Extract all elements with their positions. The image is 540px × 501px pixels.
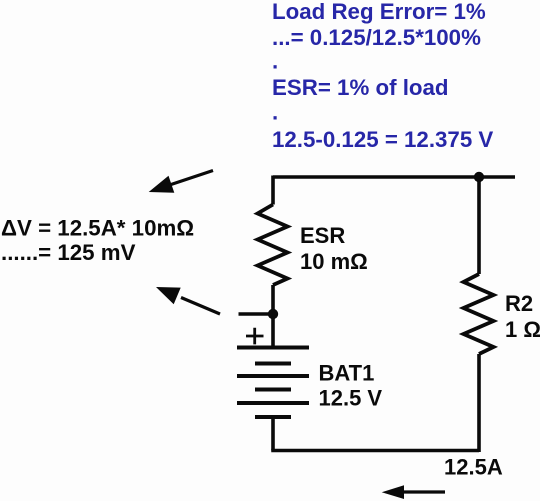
svg-text:12.5 V: 12.5 V — [319, 386, 383, 411]
arrow 1 (points upper-left, from top wire toward dV note) — [149, 171, 213, 193]
arrow 2 (points upper-left, from + node toward dV note) — [156, 287, 220, 314]
svg-text:10 mΩ: 10 mΩ — [300, 249, 368, 274]
svg-text:R2: R2 — [505, 291, 533, 316]
svg-text:.: . — [272, 49, 278, 74]
arrow 3 (bottom, points left, load current direction) — [382, 485, 445, 499]
resistor R2 zigzag — [464, 274, 494, 354]
junction dot ESR/battery + node — [268, 309, 278, 319]
wire + node to battery top plate — [271, 314, 275, 348]
svg-text:1 Ω: 1 Ω — [505, 317, 540, 342]
svg-text:ΔV = 12.5A* 10mΩ: ΔV = 12.5A* 10mΩ — [1, 216, 194, 241]
junction dot top node — [474, 172, 484, 182]
svg-text:.: . — [272, 100, 278, 125]
wire stub left of + node — [239, 312, 274, 316]
wire ESR bottom to + node — [271, 285, 275, 314]
svg-text:......= 125 mV: ......= 125 mV — [1, 240, 136, 265]
wire battery bottom lead — [271, 417, 275, 451]
battery BAT1 plates — [237, 348, 309, 418]
svg-text:BAT1: BAT1 — [319, 360, 375, 385]
wire right branch upper lead — [477, 176, 481, 275]
battery BAT1 plus sign — [246, 328, 264, 345]
svg-text:12.5A: 12.5A — [444, 455, 503, 480]
wire left branch upper lead — [271, 176, 275, 205]
wire right branch lower lead — [477, 354, 481, 452]
wire bottom node — [271, 449, 479, 453]
wire top node (ESR top to R2 top, extends right) — [273, 175, 515, 179]
svg-text:...= 0.125/12.5*100%: ...= 0.125/12.5*100% — [272, 25, 481, 50]
resistor ESR zigzag — [258, 205, 288, 286]
svg-text:ESR: ESR — [300, 223, 345, 248]
svg-text:ESR= 1% of load: ESR= 1% of load — [272, 75, 449, 100]
svg-text:12.5-0.125 = 12.375 V: 12.5-0.125 = 12.375 V — [272, 127, 493, 152]
svg-text:Load Reg Error= 1%: Load Reg Error= 1% — [272, 0, 486, 24]
